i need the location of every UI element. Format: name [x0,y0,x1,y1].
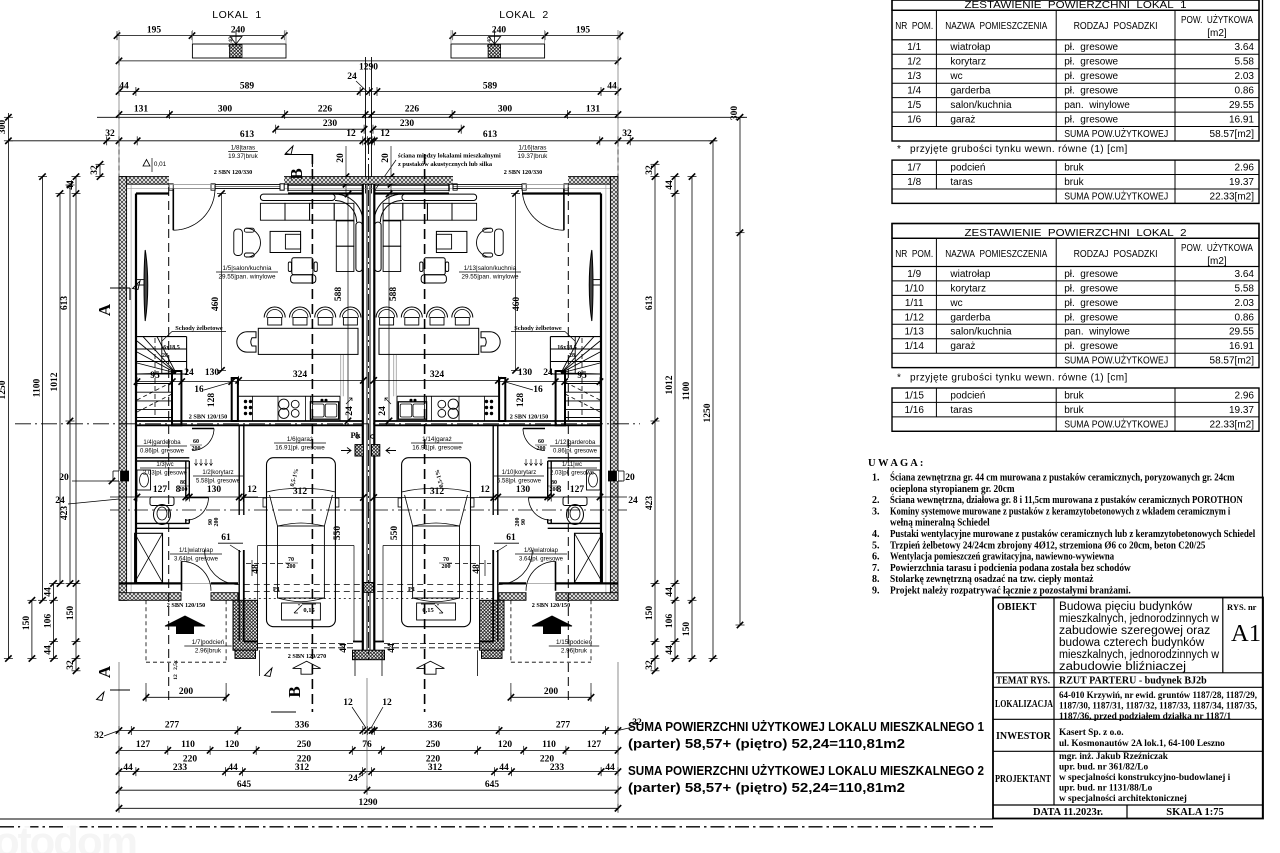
svg-text:128: 128 [207,393,217,408]
svg-text:2.96: 2.96 [1235,390,1255,401]
svg-text:zabudowie szeregowej oraz: zabudowie szeregowej oraz [1059,625,1210,637]
svg-text:58.57[m2]: 58.57[m2] [1210,356,1255,367]
svg-text:80: 80 [551,480,557,486]
svg-text:550: 550 [390,526,400,541]
svg-text:A: A [95,665,114,678]
svg-text:19.37: 19.37 [1229,177,1254,188]
svg-text:0,01: 0,01 [154,161,167,168]
svg-text:64-010 Krzywiń, nr ewid. grunt: 64-010 Krzywiń, nr ewid. gruntów 1187/28… [1059,691,1257,701]
svg-text:w specjalności konstrukcyjno-b: w specjalności konstrukcyjno-budowlanej … [1059,773,1231,783]
svg-text:3.: 3. [872,506,880,517]
svg-text:16: 16 [194,385,204,395]
svg-text:6.: 6. [872,552,880,563]
svg-text:-: - [298,600,301,609]
svg-text:NAZWA POMIESZCZENIA: NAZWA POMIESZCZENIA [945,21,1047,32]
svg-text:Pk: Pk [351,430,361,440]
svg-text:Trzpień żelbetowy 24/24cm zbro: Trzpień żelbetowy 24/24cm zbrojony 4Ø12,… [890,540,1205,551]
svg-text:150: 150 [66,606,76,621]
svg-text:przyjęte grubości tynku wewn.: przyjęte grubości tynku wewn. równe (1) … [910,144,1128,155]
svg-text:1/3: 1/3 [907,71,921,82]
svg-text:277: 277 [556,720,571,730]
svg-text:150: 150 [682,622,692,637]
svg-text:ocieplona styropianem gr. 20cm: ocieplona styropianem gr. 20cm [890,484,1015,495]
svg-text:[m2]: [m2] [1207,28,1227,39]
svg-text:24: 24 [347,72,357,82]
svg-text:24: 24 [184,368,194,378]
svg-text:12: 12 [247,485,257,495]
svg-text:32: 32 [94,731,104,741]
svg-text:Kominy systemowe murowane z pu: Kominy systemowe murowane z pustaków z k… [890,506,1230,517]
svg-text:48: 48 [472,564,482,574]
svg-text:12: 12 [173,674,179,680]
svg-text:mieszkalnych, jednorodzinnych: mieszkalnych, jednorodzinnych w [1059,613,1220,625]
svg-text:200: 200 [192,446,201,452]
svg-text:A1: A1 [1231,620,1261,647]
svg-text:SUMA POW.UŻYTKOWEJ: SUMA POW.UŻYTKOWEJ [1064,189,1168,202]
svg-text:240: 240 [231,25,246,35]
svg-text:2,5x: 2,5x [173,660,179,670]
svg-text:przyjęte grubości tynku wewn.: przyjęte grubości tynku wewn. równe (1) … [910,373,1128,384]
svg-text:130: 130 [205,368,220,378]
svg-text:312: 312 [428,763,443,773]
svg-text:200: 200 [544,687,559,697]
svg-text:garderba: garderba [950,312,990,323]
svg-text:0.86|pł. gresowe: 0.86|pł. gresowe [553,449,598,455]
svg-text:5.58|pł. gresowe: 5.58|pł. gresowe [497,479,542,485]
svg-text:230: 230 [400,119,415,129]
svg-text:2 SBN 120/150: 2 SBN 120/150 [167,602,206,609]
svg-text:1/6: 1/6 [907,115,921,126]
svg-text:5.58: 5.58 [1235,283,1255,294]
svg-text:24: 24 [55,496,65,506]
svg-text:1/16|taras: 1/16|taras [519,145,547,152]
svg-text:1/15|podcień: 1/15|podcień [556,639,592,646]
svg-text:613: 613 [645,296,655,311]
svg-text:24: 24 [378,406,388,416]
svg-text:wc: wc [949,298,962,309]
svg-text:200: 200 [515,518,521,527]
svg-text:16.91: 16.91 [1229,115,1254,126]
svg-text:(parter) 58,57+ (piętro) 52,24: (parter) 58,57+ (piętro) 52,24=110,81m2 [628,780,905,795]
svg-text:29.55: 29.55 [1229,100,1254,111]
svg-text:2 SBN 120/330: 2 SBN 120/330 [214,169,253,176]
svg-text:336: 336 [295,720,310,730]
svg-text:1/5: 1/5 [907,100,921,111]
svg-text:32: 32 [105,129,115,139]
svg-text:32: 32 [622,129,632,139]
svg-text:1/8: 1/8 [907,177,921,188]
svg-text:645: 645 [237,780,252,790]
svg-text:salon/kuchnia: salon/kuchnia [950,100,1012,111]
svg-text:29.55: 29.55 [1229,327,1254,338]
svg-text:44: 44 [44,645,54,655]
svg-text:1/14|garaż: 1/14|garaż [422,436,452,443]
svg-text:28: 28 [162,353,168,359]
svg-text:POW. UŻYTKOWA: POW. UŻYTKOWA [1181,241,1253,254]
svg-text:2.03: 2.03 [1235,298,1255,309]
svg-text:16: 16 [533,385,543,395]
svg-text:277: 277 [165,720,180,730]
svg-text:106: 106 [44,614,54,629]
svg-text:(parter) 58,57+ (piętro) 52,24: (parter) 58,57+ (piętro) 52,24=110,81m2 [628,736,905,751]
svg-text:7.: 7. [872,563,880,574]
svg-text:19.37|bruk: 19.37|bruk [228,153,258,160]
svg-text:0,15: 0,15 [303,607,315,614]
svg-text:106: 106 [665,614,675,629]
svg-text:130: 130 [207,485,222,495]
svg-text:22.33[m2]: 22.33[m2] [1210,419,1255,430]
svg-text:120: 120 [225,740,240,750]
svg-text:128: 128 [516,393,526,408]
svg-text:32: 32 [645,660,655,670]
svg-text:2.96: 2.96 [1235,163,1255,174]
svg-text:3.64: 3.64 [1235,269,1255,280]
svg-text:bruk: bruk [1064,177,1084,188]
svg-text:podcień: podcień [950,163,985,174]
svg-text:12: 12 [346,129,356,139]
svg-text:233: 233 [173,763,188,773]
svg-text:1/10: 1/10 [904,283,924,294]
svg-text:LOKALIZACJA: LOKALIZACJA [995,699,1054,710]
svg-text:16x18,5: 16x18,5 [160,345,180,351]
svg-text:200: 200 [537,446,546,452]
svg-text:korytarz: korytarz [950,283,986,294]
svg-text:1/1|wiatrołap: 1/1|wiatrołap [179,548,214,554]
svg-text:200: 200 [179,487,188,493]
svg-text:B: B [287,168,306,179]
svg-text:RODZAJ POSADZKI: RODZAJ POSADZKI [1074,249,1158,260]
svg-text:588: 588 [334,287,344,302]
svg-text:NAZWA POMIESZCZENIA: NAZWA POMIESZCZENIA [945,249,1047,260]
svg-text:1/2|korytarz: 1/2|korytarz [202,470,233,476]
svg-text:taras: taras [950,405,972,416]
svg-text:8.: 8. [872,574,880,585]
svg-text:SUMA POW.UŻYTKOWEJ: SUMA POW.UŻYTKOWEJ [1064,354,1168,367]
svg-text:1/5|salon/kuchnia: 1/5|salon/kuchnia [223,265,272,272]
svg-text:1187/30, 1187/31, 1187/32, 118: 1187/30, 1187/31, 1187/32, 1187/33, 1187… [1059,702,1257,712]
svg-text:DATA 11.2023r.: DATA 11.2023r. [1033,807,1103,818]
svg-text:1/13|salon/kuchnia: 1/13|salon/kuchnia [464,265,517,272]
svg-text:1/15: 1/15 [904,390,924,401]
svg-text:16x18,5: 16x18,5 [557,345,577,351]
svg-text:Projekt należy rozpatrywać łąc: Projekt należy rozpatrywać łącznie z poz… [890,586,1131,597]
svg-text:1290: 1290 [359,798,378,808]
svg-text:150: 150 [645,606,655,621]
svg-text:130: 130 [518,368,533,378]
svg-text:233: 233 [550,763,565,773]
svg-text:0.86: 0.86 [1235,86,1255,97]
svg-text:wiatrołap: wiatrołap [949,42,990,53]
svg-text:1/10|korytarz: 1/10|korytarz [502,470,537,476]
svg-text:127: 127 [570,485,585,495]
svg-text:pł. gresowe: pł. gresowe [1064,86,1118,97]
svg-text:wełną mineralną Schiedel: wełną mineralną Schiedel [890,518,990,529]
svg-text:1/9|wiatrołap: 1/9|wiatrołap [524,548,559,554]
svg-text:PROJEKTANT: PROJEKTANT [995,774,1051,785]
svg-text:SUMA POW.UŻYTKOWEJ: SUMA POW.UŻYTKOWEJ [1064,417,1168,430]
svg-text:200: 200 [214,518,220,527]
svg-text:1/11: 1/11 [905,298,924,309]
svg-text:wc: wc [949,71,962,82]
svg-text:90: 90 [521,519,527,525]
svg-text:podcień: podcień [950,390,985,401]
svg-text:1.: 1. [872,473,880,484]
svg-text:korytarz: korytarz [950,57,986,68]
svg-text:20: 20 [625,473,635,483]
svg-text:1/8|taras: 1/8|taras [231,145,255,152]
svg-text:2.03|pł. gresowe: 2.03|pł. gresowe [550,471,595,477]
svg-text:200: 200 [287,564,296,570]
svg-text:44: 44 [387,643,397,653]
svg-text:127: 127 [136,740,151,750]
svg-text:*: * [897,144,901,155]
svg-text:3.64|pł. gresowe: 3.64|pł. gresowe [174,557,219,563]
svg-text:423: 423 [645,496,655,511]
svg-text:salon/kuchnia: salon/kuchnia [950,327,1012,338]
svg-text:ul. Kosmonautów 2A lok.1, 64-1: ul. Kosmonautów 2A lok.1, 64-100 Leszno [1059,739,1225,749]
svg-text:mgr. inż. Jakub Rzeźniczak: mgr. inż. Jakub Rzeźniczak [1059,752,1169,762]
svg-text:2 SBN 120/150: 2 SBN 120/150 [510,414,549,421]
svg-text:1/3|wc: 1/3|wc [156,462,173,468]
svg-text:zabudowie bliźniaczej: zabudowie bliźniaczej [1059,661,1186,673]
svg-text:z pustaków akustycznych lub si: z pustaków akustycznych lub silka [398,161,493,168]
svg-text:460: 460 [211,297,221,312]
svg-text:70: 70 [443,557,449,563]
svg-text:taras: taras [950,177,972,188]
svg-text:1/7: 1/7 [907,163,921,174]
svg-text:5.58: 5.58 [1235,57,1255,68]
svg-text:61: 61 [221,533,231,543]
svg-text:RZUT PARTERU - budynek BJ2b: RZUT PARTERU - budynek BJ2b [1059,676,1207,687]
svg-text:44: 44 [228,763,238,773]
svg-text:otodom: otodom [0,818,136,853]
svg-text:44: 44 [123,763,133,773]
svg-text:0.86: 0.86 [1235,312,1255,323]
svg-text:RODZAJ POSADZKI: RODZAJ POSADZKI [1074,21,1158,32]
svg-text:1/16: 1/16 [904,405,924,416]
svg-text:0,15: 0,15 [422,607,434,614]
svg-text:POW. UŻYTKOWA: POW. UŻYTKOWA [1181,13,1253,26]
svg-text:1250: 1250 [0,380,8,399]
svg-text:1187/36, przed podziałem dział: 1187/36, przed podziałem działka nr 1187… [1059,712,1232,722]
svg-text:226: 226 [405,104,420,114]
svg-text:44: 44 [119,81,129,91]
svg-text:200: 200 [442,564,451,570]
svg-text:60: 60 [193,439,199,445]
svg-text:131: 131 [134,104,149,114]
svg-text:19.37|bruk: 19.37|bruk [518,153,548,160]
svg-text:garderba: garderba [950,86,990,97]
svg-text:200: 200 [550,487,559,493]
svg-text:Wentylacja pomieszczeń grawita: Wentylacja pomieszczeń grawitacyjna, naw… [890,552,1114,563]
svg-text:4.: 4. [872,529,880,540]
svg-text:95: 95 [577,371,587,381]
svg-text:300: 300 [218,104,233,114]
svg-text:pł. gresowe: pł. gresowe [1064,283,1118,294]
svg-text:61: 61 [506,533,516,543]
svg-text:pan. winylowe: pan. winylowe [1064,327,1130,338]
svg-text:48: 48 [251,564,261,574]
svg-text:A: A [95,303,114,316]
svg-text:32: 32 [66,660,76,670]
svg-text:1/11|wc: 1/11|wc [562,462,582,468]
svg-text:20: 20 [336,153,346,163]
svg-text:22.33[m2]: 22.33[m2] [1210,191,1255,202]
svg-text:588: 588 [389,287,399,302]
svg-text:pł. gresowe: pł. gresowe [1064,57,1118,68]
svg-text:226: 226 [318,104,333,114]
svg-text:12: 12 [382,698,392,708]
svg-text:44: 44 [66,180,76,190]
svg-text:SKALA 1:75: SKALA 1:75 [1166,807,1223,818]
svg-text:3.64: 3.64 [1235,42,1255,53]
svg-text:44: 44 [499,763,509,773]
svg-text:589: 589 [240,81,255,91]
svg-text:Schody żelbetowe: Schody żelbetowe [514,325,562,332]
svg-text:bruk: bruk [1064,390,1084,401]
svg-text:95: 95 [150,371,160,381]
svg-text:2.03|pł. gresowe: 2.03|pł. gresowe [143,471,188,477]
svg-text:44: 44 [607,81,617,91]
svg-text:423: 423 [60,506,70,521]
svg-text:pł. gresowe: pł. gresowe [1064,269,1118,280]
svg-text:Ściana zewnętrzna gr. 44 cm mu: Ściana zewnętrzna gr. 44 cm murowana z p… [890,472,1235,484]
svg-text:1290: 1290 [359,63,378,73]
svg-text:460: 460 [512,297,522,312]
svg-text:ściana między lokalami mieszka: ściana między lokalami mieszkalnymi [398,153,501,160]
svg-text:613: 613 [240,130,255,140]
svg-text:1/1: 1/1 [907,42,921,53]
svg-text:300: 300 [0,120,8,135]
svg-text:20: 20 [381,153,391,163]
svg-text:1012: 1012 [50,372,60,391]
svg-text:24: 24 [628,496,638,506]
svg-text:230: 230 [323,119,338,129]
svg-text:300: 300 [498,104,513,114]
svg-text:24: 24 [345,406,355,416]
svg-text:250: 250 [426,740,441,750]
svg-text:20: 20 [59,473,69,483]
svg-text:312: 312 [430,487,445,497]
svg-text:garaż: garaż [950,341,975,352]
svg-text:1/14: 1/14 [904,341,924,352]
svg-text:RYS. nr: RYS. nr [1227,602,1257,612]
svg-text:Schody żelbetowe: Schody żelbetowe [175,325,223,332]
svg-text:3.64|pł. gresowe: 3.64|pł. gresowe [519,557,564,563]
svg-text:110: 110 [181,740,195,750]
svg-text:58.57[m2]: 58.57[m2] [1210,129,1255,140]
svg-text:Budowa pięciu budynków: Budowa pięciu budynków [1059,601,1193,613]
svg-text:19.37: 19.37 [1229,405,1254,416]
svg-text:[m2]: [m2] [1207,256,1227,267]
svg-text:16.91: 16.91 [1229,341,1254,352]
svg-text:2 SBN 120/270: 2 SBN 120/270 [288,653,327,660]
svg-text:Pustaki wentylacyjne murowane: Pustaki wentylacyjne murowane z pustaków… [890,529,1255,540]
svg-text:240: 240 [492,25,507,35]
svg-text:9.: 9. [872,586,880,597]
svg-text:bruk: bruk [1064,163,1084,174]
svg-text:ZESTAWIENIE POWIERZCHNI LOKA: ZESTAWIENIE POWIERZCHNI LOKAL 2 [965,227,1187,239]
svg-text:110: 110 [542,740,556,750]
svg-text:pł. gresowe: pł. gresowe [1064,298,1118,309]
svg-text:1/7|podcień: 1/7|podcień [192,639,225,646]
svg-text:16.91|pł. gresowe: 16.91|pł. gresowe [412,445,462,452]
svg-text:1/6|garaż: 1/6|garaż [287,436,313,443]
svg-text:131: 131 [586,104,601,114]
svg-text:LOKAL 1: LOKAL 1 [212,9,262,21]
svg-text:upr. bud. nr 361/82/Lo: upr. bud. nr 361/82/Lo [1059,763,1148,773]
svg-text:589: 589 [483,81,498,91]
svg-text:2 SBN 120/150: 2 SBN 120/150 [532,602,571,609]
svg-text:300: 300 [730,106,740,121]
svg-text:5.: 5. [872,540,880,551]
svg-text:1/12: 1/12 [904,312,924,323]
svg-text:5.58|pł. gresowe: 5.58|pł. gresowe [196,479,241,485]
svg-text:pł. gresowe: pł. gresowe [1064,312,1118,323]
svg-text:195: 195 [147,25,162,35]
svg-text:44: 44 [665,587,675,597]
svg-text:1/13: 1/13 [904,327,924,338]
svg-text:44: 44 [339,643,349,653]
svg-text:bruk: bruk [1064,405,1084,416]
svg-text:B: B [285,686,304,697]
svg-text:1/4: 1/4 [907,86,921,97]
svg-text:1100: 1100 [682,382,692,401]
svg-text:budowa czterech budynków: budowa czterech budynków [1059,637,1205,649]
svg-text:P1: P1 [273,586,280,593]
svg-text:ZESTAWIENIE POWIERZCHNI LOKA: ZESTAWIENIE POWIERZCHNI LOKAL 1 [965,0,1187,11]
svg-text:OBIEKT: OBIEKT [997,602,1037,613]
svg-text:44: 44 [44,587,54,597]
svg-text:Kasert Sp. z o.o.: Kasert Sp. z o.o. [1059,728,1124,738]
svg-text:130: 130 [516,485,531,495]
svg-text:32: 32 [645,165,655,175]
svg-text:2.: 2. [872,495,880,506]
svg-text:550: 550 [333,526,343,541]
svg-text:2.96|bruk: 2.96|bruk [561,648,588,655]
svg-text:1100: 1100 [33,379,43,398]
svg-text:2.96|bruk: 2.96|bruk [195,648,222,655]
svg-text:Stolarkę zewnętrzną osadzać na: Stolarkę zewnętrzną osadzać na tzw. ciep… [890,574,1094,585]
svg-text:U W A G A :: U W A G A : [868,458,923,469]
svg-text:44: 44 [665,645,675,655]
svg-text:336: 336 [428,720,443,730]
svg-text:16.91|pł. gresowe: 16.91|pł. gresowe [275,445,325,452]
svg-text:1/12|garderoba: 1/12|garderoba [555,440,596,446]
svg-text:2.03: 2.03 [1235,71,1255,82]
svg-text:70: 70 [288,557,294,563]
svg-text:12: 12 [480,485,490,495]
svg-text:pan. winylowe: pan. winylowe [1064,100,1130,111]
svg-text:garaż: garaż [950,115,975,126]
svg-text:613: 613 [483,130,498,140]
svg-text:80: 80 [180,480,186,486]
svg-text:Powierzchnia tarasu i podcieni: Powierzchnia tarasu i podcienia podana z… [890,563,1131,574]
svg-text:LOKAL 2: LOKAL 2 [499,9,549,21]
svg-text:1/9: 1/9 [907,269,921,280]
svg-text:pł. gresowe: pł. gresowe [1064,71,1118,82]
svg-text:P1: P1 [408,586,415,593]
svg-text:32: 32 [90,165,100,175]
svg-text:NR POM.: NR POM. [895,21,933,32]
svg-text:312: 312 [295,763,310,773]
svg-text:44: 44 [605,763,615,773]
svg-text:44: 44 [665,180,675,190]
svg-text:0.86|pł. gresowe: 0.86|pł. gresowe [140,449,185,455]
svg-text:pł. gresowe: pł. gresowe [1064,341,1118,352]
svg-text:SUMA POW.UŻYTKOWEJ: SUMA POW.UŻYTKOWEJ [1064,127,1168,140]
svg-text:pł. gresowe: pł. gresowe [1064,115,1118,126]
